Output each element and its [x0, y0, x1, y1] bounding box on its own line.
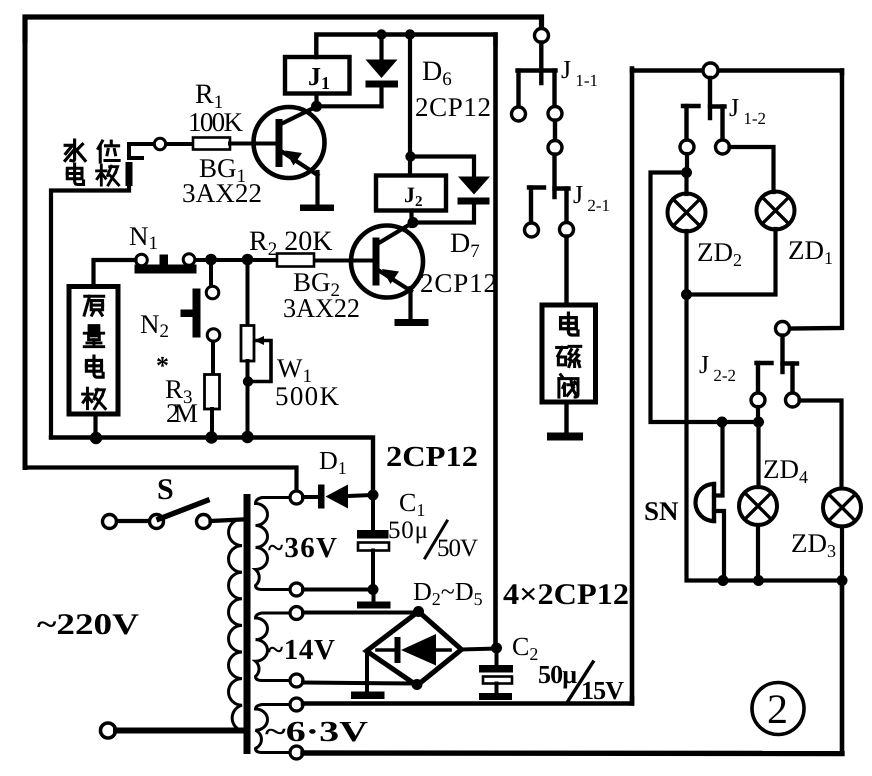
node BG1 collector junction — [311, 101, 322, 112]
svg-text:SN: SN — [644, 496, 679, 526]
svg-text:50V: 50V — [437, 535, 478, 562]
node 水位电极 label — [65, 140, 119, 185]
label D6 — [422, 56, 452, 90]
label 2CP12 bold — [386, 441, 478, 473]
node bus junction ZD3 — [837, 575, 848, 586]
transformer primary winding — [229, 519, 243, 731]
svg-text:3AX22: 3AX22 — [182, 178, 262, 208]
wire bottom rail of upper circuit — [51, 438, 373, 496]
wire supply rail to J2 top — [408, 35, 412, 176]
terminal J2-1 top — [548, 141, 562, 155]
label J2-1 — [573, 180, 610, 215]
node C2 junction — [491, 643, 502, 654]
diode D1 — [303, 485, 373, 509]
node bridge bottom junction — [412, 679, 423, 690]
terminal 36V bottom — [290, 583, 303, 596]
contact J2-1 — [525, 155, 574, 238]
wire bus down to bottom rail — [840, 581, 845, 754]
label 4x2CP12 — [503, 578, 629, 611]
negative supply rail vertical x=495 — [493, 35, 498, 649]
label D7 — [450, 228, 480, 262]
svg-text:4×2CP12: 4×2CP12 — [503, 578, 629, 611]
wire 14V top to bridge — [303, 611, 419, 615]
node rail junction — [405, 29, 415, 39]
node rail junction R3 — [205, 431, 217, 443]
wire J2 bottom to BG2 collector — [409, 211, 413, 227]
label ~220V — [37, 608, 139, 641]
terminal 6.3V top — [290, 698, 303, 711]
node bridge top junction — [413, 606, 424, 617]
svg-text:D2~D5: D2~D5 — [413, 577, 483, 609]
wire R3 to rail — [210, 409, 214, 438]
label S — [157, 473, 174, 506]
svg-text:15V: 15V — [581, 676, 624, 705]
buzzer SN — [696, 422, 724, 581]
resistor R1 — [193, 138, 230, 150]
svg-text:2: 2 — [767, 687, 788, 733]
diode D6 — [366, 35, 399, 107]
node rail junction electrode — [90, 432, 102, 444]
capacitor C2 — [479, 648, 513, 700]
terminal 14V top — [290, 607, 303, 620]
label ZD4 — [763, 454, 808, 487]
label 50V — [437, 535, 478, 562]
terminal 6.3V bottom — [290, 746, 303, 759]
wire J2-1 to solenoid valve — [564, 237, 568, 306]
wire 36V bottom to C1 node — [303, 588, 373, 592]
label 50u — [388, 517, 428, 544]
transistor BG1 — [254, 107, 325, 206]
transformer core — [244, 494, 251, 754]
contact J2-2 — [751, 336, 800, 408]
ground BG2 emitter — [395, 319, 429, 326]
svg-text:100K: 100K — [188, 107, 244, 137]
label D1 — [319, 446, 347, 478]
resistor R3 — [205, 375, 220, 410]
transformer secondary 36V winding — [256, 498, 291, 590]
terminal 36V top — [290, 491, 303, 504]
potentiometer W1 — [241, 260, 271, 438]
transformer secondary 14V winding — [256, 613, 291, 681]
wire 6.3V top rail to right frame — [303, 698, 632, 704]
right frame left edge — [630, 71, 635, 704]
water level electrode probe — [51, 144, 160, 438]
svg-text:~220V: ~220V — [37, 608, 139, 641]
wire bridge output to C2 node — [462, 649, 496, 650]
relay coil J1 — [285, 57, 350, 94]
transistor BG2 — [351, 223, 423, 320]
pushbutton N2 — [181, 260, 220, 376]
wire jog to lamp feed — [651, 173, 759, 423]
wire J1-2 to ZD1 — [730, 147, 774, 192]
svg-text:2CP12: 2CP12 — [415, 92, 491, 122]
svg-text:2CP12: 2CP12 — [386, 441, 478, 473]
node J2 bottom junction — [408, 217, 419, 228]
label 500K — [275, 381, 340, 411]
label R1 — [195, 79, 223, 113]
node N2 top junction — [205, 254, 217, 266]
wire 14V bottom to bridge bottom vertex — [303, 683, 415, 684]
label D7 2CP12 — [420, 268, 497, 298]
label SN — [644, 496, 679, 526]
node bus junction ZD4 — [753, 575, 764, 586]
node rail junction W1 — [241, 431, 253, 443]
lamp ZD1 — [757, 192, 795, 230]
label N2 — [140, 309, 169, 342]
svg-text:~6·3V: ~6·3V — [265, 716, 368, 748]
wire bottom rail 6.3V — [303, 750, 842, 756]
wire J1-2 left contact to ZD2 node — [685, 154, 689, 173]
wire circle to R1 — [166, 142, 193, 146]
contact J1-1 — [512, 29, 563, 122]
node SN feed junction — [717, 417, 728, 428]
node W1 top junction — [242, 254, 254, 266]
lamp ZD4 — [739, 422, 777, 581]
contact N1 — [135, 254, 197, 274]
label 3AX22 (BG2) — [283, 293, 360, 323]
label 50u C2 — [538, 660, 577, 689]
bridge rectifier D2-D5 — [367, 612, 462, 686]
node ZD4 feed junction — [753, 417, 764, 428]
label 3AX22 — [182, 178, 262, 208]
wire lower-left to 36V winding top — [25, 468, 297, 492]
wire top border from left frame to J1-1 — [25, 17, 542, 40]
wire R1 to BG1 base — [230, 142, 276, 146]
label BG2 — [293, 267, 340, 301]
label 2M — [166, 398, 198, 428]
wire J2-2 left contact down — [756, 407, 760, 422]
label 100K — [188, 107, 244, 137]
label BG1 — [199, 153, 246, 187]
electrode box 质量电极 — [69, 287, 118, 415]
solenoid valve box 电磁阀 — [542, 305, 596, 402]
svg-text:3AX22: 3AX22 — [283, 293, 360, 323]
wire join down to bottom bus — [687, 295, 843, 581]
svg-text:2CP12: 2CP12 — [420, 268, 497, 298]
node bus junction SN — [718, 575, 729, 586]
wire ZD1 bottom to join — [687, 229, 776, 295]
label asterisk — [156, 351, 169, 380]
right frame top wire — [632, 69, 842, 74]
wire J1 bottom to BG1 collector node — [317, 94, 382, 107]
label ~36V — [268, 532, 337, 564]
svg-text:50μ: 50μ — [538, 660, 577, 689]
diode D7 — [414, 177, 490, 223]
right frame right edge to J2-2 — [790, 71, 843, 329]
wire N1 to 质量电极 box — [94, 260, 136, 287]
node lamps join — [681, 289, 692, 300]
svg-text:S: S — [157, 473, 174, 506]
transformer secondary 6.3V winding — [256, 705, 291, 753]
label slash C2 — [568, 662, 593, 701]
terminal 14V bottom — [290, 674, 303, 687]
wire J2-2 right to ZD3 — [800, 401, 842, 489]
ground BG1 emitter — [300, 205, 334, 212]
label 15V — [581, 676, 624, 705]
label D2~D5 — [413, 577, 483, 609]
label W1 — [277, 353, 312, 387]
svg-text:~36V: ~36V — [268, 532, 337, 564]
node J2 top junction — [405, 151, 415, 161]
wire J1-1 to J2-1 — [553, 121, 557, 142]
wire base rail N1 to R2 to BG2 — [195, 258, 374, 263]
terminal J2-2 top — [776, 322, 790, 336]
label J1-2 — [729, 93, 766, 128]
node D6 top junction — [376, 29, 386, 39]
wire ZD2 bottom to join — [684, 231, 688, 295]
terminal 220V bottom — [101, 723, 116, 738]
label slash C1 — [425, 521, 447, 558]
node D1 output junction — [368, 490, 379, 501]
svg-text:50μ: 50μ — [388, 517, 428, 544]
ground solenoid valve — [547, 402, 583, 441]
node ZD2 top junction — [681, 167, 692, 178]
svg-text:500K: 500K — [275, 381, 340, 411]
label C2 — [512, 632, 538, 664]
lamp ZD2 — [668, 178, 706, 232]
figure number 2 — [752, 683, 804, 735]
wire ZD3 bottom to bus — [840, 527, 844, 581]
contact J1-2 — [680, 63, 730, 154]
lamp ZD3 — [823, 489, 861, 527]
resistor R2 — [277, 254, 314, 267]
wire J2 top to D7 — [411, 157, 475, 178]
ground bridge — [351, 652, 385, 699]
label R3 — [165, 374, 193, 408]
svg-text:2M: 2M — [166, 398, 198, 428]
wire box bottom to rail — [93, 414, 97, 438]
wire J1 top to supply rail — [316, 35, 495, 58]
wire left frame vertical — [23, 38, 28, 468]
capacitor C1 — [357, 495, 389, 590]
node C1 bottom junction — [368, 584, 379, 595]
node W1 wiper junction — [243, 376, 253, 386]
svg-text:~14V: ~14V — [268, 634, 335, 666]
label ~14V — [268, 634, 335, 666]
label N1 — [129, 221, 158, 254]
switch S — [103, 501, 243, 529]
label C1 — [399, 488, 425, 520]
ground C1 — [357, 590, 391, 609]
label J1-1 — [561, 55, 598, 90]
label ZD1 — [788, 235, 833, 268]
label ~6.3V — [265, 716, 368, 748]
relay coil J2 — [376, 176, 446, 211]
terminal circle at R1 input — [154, 138, 165, 149]
wire 220V bottom to primary — [116, 728, 241, 734]
label ZD2 — [697, 237, 742, 270]
label R2 20K — [249, 226, 332, 260]
label D6 2CP12 — [415, 92, 491, 122]
label ZD3 — [791, 528, 836, 561]
label J2-2 — [699, 350, 736, 385]
